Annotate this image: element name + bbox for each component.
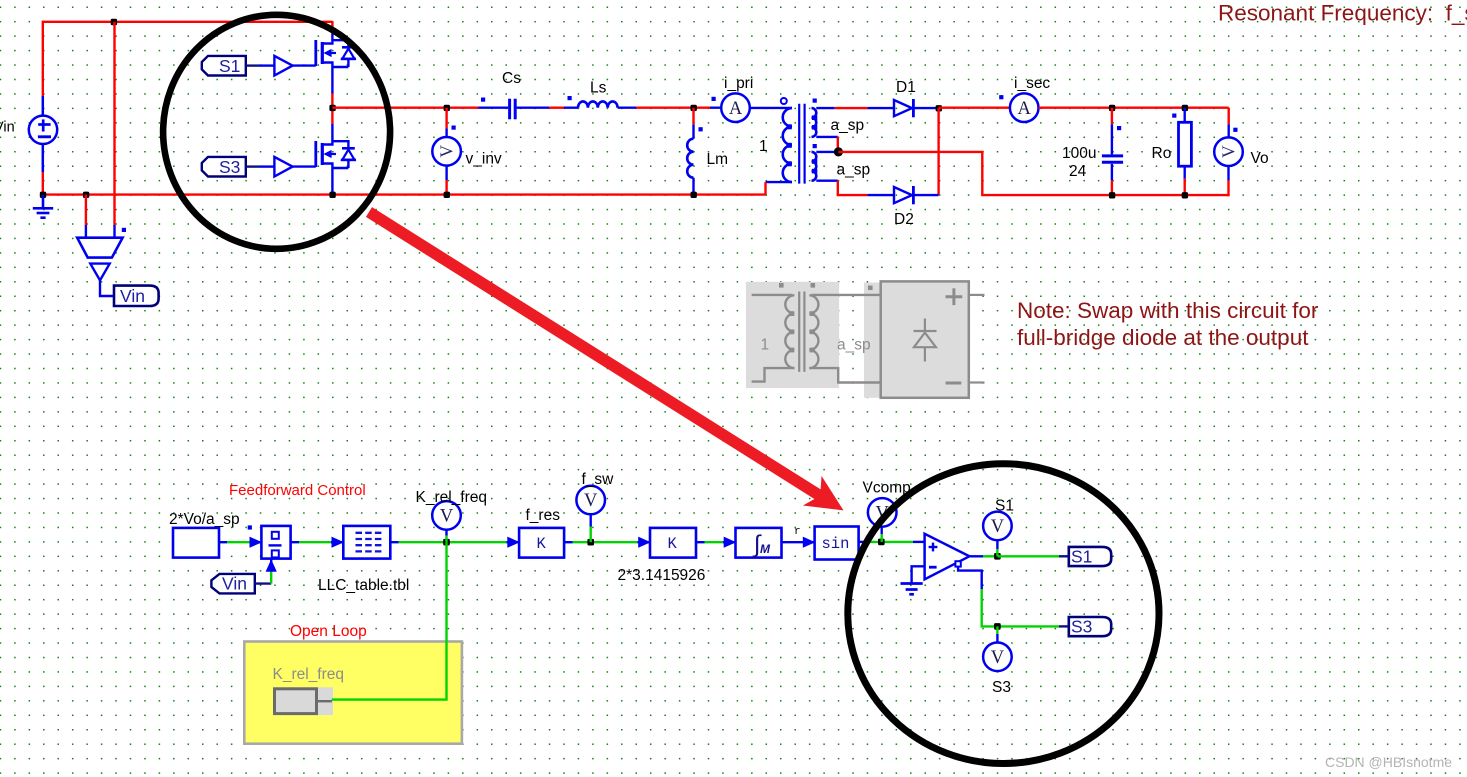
source VIN (dc source) [29, 116, 57, 144]
wire: Vin source top lead [42, 21, 44, 96]
svg-text:Resonant Frequency: f_s: Resonant Frequency: f_s [1218, 1, 1467, 26]
wire: buffer to gate [293, 165, 316, 167]
svg-text:Note: Swap with this circuit f: Note: Swap with this circuit for [1017, 298, 1319, 323]
open loop yellow panel [244, 642, 462, 744]
wire: S1 source to midpoint [331, 67, 333, 94]
svg-text:24: 24 [1069, 163, 1087, 180]
svg-text:full-bridge diode at the outpu: full-bridge diode at the output [1017, 325, 1309, 350]
wire: secondary lower to D2 [816, 179, 838, 181]
wire: integrator to sin [782, 541, 815, 543]
junction: S3 output node [994, 623, 1001, 630]
grayed swap circuit backdrop [746, 282, 839, 388]
wire: f_sw probe lead [590, 514, 592, 526]
svg-text:Cs: Cs [502, 70, 521, 87]
sensor S3 (voltmeter) [983, 643, 1012, 672]
capacitor Co (100u/24) [1102, 108, 1123, 195]
tag Vin (divider input, right-rounded) [211, 574, 254, 594]
wire: center tap to output return [838, 152, 1228, 195]
svg-text:a_sp: a_sp [837, 337, 871, 354]
svg-text:S1: S1 [219, 56, 240, 76]
svg-text:Vin: Vin [120, 286, 145, 306]
primary winding [783, 108, 792, 182]
red arrow [369, 212, 853, 525]
comparator U1 [925, 534, 970, 580]
wire: Ls to Lm node [636, 106, 710, 108]
wire: Cs to Ls [549, 106, 564, 108]
grayed diode bridge block [881, 281, 985, 397]
wire: bottom rail [43, 193, 766, 195]
sensor output triangle [90, 264, 109, 281]
svg-text:Ls: Ls [590, 80, 607, 97]
svg-text:M: M [760, 542, 771, 556]
junction: bottom rail / sensor tap [83, 192, 89, 198]
svg-text:Vin: Vin [0, 120, 15, 136]
junction: top rail / vin sense [111, 19, 117, 25]
wire: K2 to integrator [696, 541, 705, 543]
wire: output to S1 tag [997, 555, 1059, 557]
junction: Lm tap [691, 105, 697, 111]
transformer T1 [750, 98, 817, 195]
wire: top rail [43, 21, 333, 23]
junction: S1 output node [994, 553, 1001, 560]
junction: v_inv tap [444, 105, 450, 111]
svg-text:Vcomp: Vcomp [863, 480, 911, 497]
wire: S3 probe lead [996, 626, 998, 634]
wire: divider to table [291, 541, 299, 543]
inductor Ls [564, 96, 636, 108]
junction: ground node [40, 192, 46, 198]
wire: Vcomp probe lead [881, 527, 883, 534]
svg-text:K: K [668, 535, 678, 553]
wire: Lm bottom lead [692, 178, 694, 195]
buffer A2 (gate driver) [274, 157, 292, 177]
diode D1 [894, 99, 938, 117]
svg-text:S3: S3 [992, 679, 1011, 696]
wire: Vin source bottom lead [42, 144, 45, 173]
junction: S3 source / bottom rail [329, 192, 335, 198]
svg-text:i_sec: i_sec [1014, 75, 1050, 92]
wire: inverting input to ground [912, 566, 925, 583]
block U2 (divider) [261, 526, 290, 559]
wire: buffer to gate [293, 64, 316, 66]
primary bottom lead [766, 181, 793, 183]
svg-text:sin: sin [822, 535, 850, 553]
svg-text:v_inv: v_inv [466, 151, 502, 168]
svg-text:r: r [794, 526, 801, 538]
wire: comparator output [969, 555, 983, 557]
svg-text:K: K [537, 535, 547, 553]
wire: v_inv bottom lead [445, 166, 447, 181]
junction: Vcomp tap [878, 539, 885, 546]
sensor S1 (voltmeter) [983, 512, 1012, 541]
svg-text:1: 1 [759, 138, 768, 155]
wire: rail to S1 drain [331, 22, 333, 34]
junction: cap top [1109, 105, 1115, 111]
tag S3 (output, right-rounded) [1069, 617, 1111, 637]
wire: secondary upper to D1 [816, 107, 834, 109]
secondary winding upper [812, 108, 817, 137]
wire: center tap lower lead [816, 151, 838, 153]
grayed transformer [752, 283, 881, 383]
inductor Lm [687, 127, 703, 178]
junction: half-bridge midpoint [329, 105, 335, 111]
grayed constant block [273, 687, 333, 715]
ground [33, 195, 53, 218]
wire: i_sec to output node [1039, 106, 1229, 108]
junction: Ro top [1182, 105, 1188, 111]
block T (LLC_table lookup) [343, 526, 390, 559]
wire: Vo bottom lead [1227, 166, 1229, 181]
svg-text:K_rel_freq: K_rel_freq [416, 489, 488, 506]
junction: Ro bottom [1182, 192, 1188, 198]
tag S1 (output, right-rounded) [1069, 547, 1111, 567]
svg-text:S3: S3 [219, 157, 240, 177]
junction: f_sw tap [587, 539, 594, 546]
wire: open-loop green drop [332, 542, 447, 699]
capacitor Cs [479, 98, 550, 120]
wire: sin to comparator [859, 541, 866, 543]
core [798, 104, 800, 184]
svg-text:1: 1 [761, 337, 770, 354]
block B1 (constant 2*Vo/a_sp) [173, 528, 219, 558]
block K2 (2*pi gain) [650, 528, 696, 558]
svg-text:a_sp: a_sp [831, 117, 865, 134]
wire: D1/D2 cathode tie [937, 108, 939, 195]
svg-text:S1: S1 [1071, 547, 1092, 567]
svg-text:Lm: Lm [707, 151, 729, 168]
wire: v_inv top lead [445, 108, 447, 129]
svg-text:f_res: f_res [526, 507, 561, 524]
sensor f_sw (voltmeter) [576, 486, 605, 515]
diode D2 [894, 186, 939, 204]
block K1 (f_res gain) [519, 528, 564, 558]
wire: sensor output to Vin tag [100, 280, 114, 296]
svg-text:a_sp: a_sp [837, 162, 871, 179]
sensor Vo (voltage probe) [1214, 137, 1243, 166]
wire: S3 source to bottom rail [331, 168, 333, 195]
svg-text:CSDN @HBIsnotme: CSDN @HBIsnotme [1325, 754, 1452, 770]
buffer A1 (gate driver) [274, 56, 292, 76]
svg-text:Vo: Vo [1251, 150, 1269, 167]
tag S3 (gate signal, left-rounded) [202, 157, 246, 177]
tag S1 (gate signal, left-rounded) [202, 56, 246, 76]
wire: Vin tag to divider bottom input [255, 582, 271, 584]
sensor K_rel_freq (voltmeter) [432, 501, 461, 530]
wire: D1 node to i_sec [939, 106, 1010, 108]
wire: K_rel_freq probe lead [445, 530, 447, 536]
svg-text:2*3.1415926: 2*3.1415926 [618, 567, 706, 584]
wire: Vo probe branch [1227, 108, 1229, 125]
svg-text:Feedforward Control: Feedforward Control [229, 482, 366, 499]
junction: K_rel_freq tap [443, 539, 450, 546]
highlight circle (half-bridge) [163, 15, 390, 249]
junction: Lm / bottom rail [691, 192, 697, 198]
sensor Vcomp (voltmeter) [868, 498, 897, 527]
wire: Lm top lead [692, 108, 694, 125]
sensor v_inv (voltage probe) [432, 137, 461, 166]
svg-text:D1: D1 [896, 79, 916, 96]
ground (comparator reference) [901, 584, 923, 595]
junction: D1 cathode node [936, 105, 942, 111]
junction: cap bottom [1109, 192, 1115, 198]
ammeter i_sec [1010, 93, 1039, 122]
wire: complementary output elbow [958, 567, 982, 590]
tag Vin (label, right-rounded) [114, 286, 159, 306]
wire: S1 tag to buffer [246, 64, 259, 66]
wire: i_pri to primary [750, 107, 792, 109]
wire: S1 probe lead [996, 540, 998, 549]
ammeter i_pri [721, 93, 750, 122]
block SIN [815, 527, 859, 560]
resistor Ro [1172, 108, 1191, 195]
primary polarity circle [781, 98, 787, 104]
svg-text:i_pri: i_pri [724, 75, 753, 92]
wire: mid rail to Cs [332, 106, 478, 108]
sensor VS1 (Vin voltage sensor trapezoid) [77, 238, 122, 258]
block INT (integrator) [736, 528, 782, 560]
highlight circle (comparator outputs) [848, 464, 1159, 764]
junction: center tap (round) [834, 147, 843, 156]
svg-text:2*Vo/a_sp: 2*Vo/a_sp [169, 511, 240, 528]
svg-text:S1: S1 [995, 498, 1014, 515]
wire: center tap upper lead [816, 136, 838, 138]
svg-text:S3: S3 [1071, 617, 1092, 637]
secondary winding lower [812, 152, 817, 181]
wire: sensor left lead [85, 195, 87, 225]
svg-text:f_sw: f_sw [582, 471, 615, 488]
svg-text:Open Loop: Open Loop [290, 623, 367, 640]
wire: table to f_res K [390, 541, 398, 543]
mosfet S3 (bottom switch with body diode) [316, 135, 356, 169]
svg-text:D2: D2 [894, 211, 914, 228]
wire: S3 tag to buffer [246, 165, 259, 167]
svg-text:Ro: Ro [1152, 145, 1172, 162]
wire: K1 to K2 [564, 541, 572, 543]
svg-text:K_rel_freq: K_rel_freq [273, 666, 345, 683]
wire: vin sense drop [113, 22, 115, 225]
svg-text:Vin: Vin [222, 574, 247, 594]
svg-text:100u: 100u [1062, 145, 1096, 162]
mosfet S1 (top switch with body diode) [316, 34, 356, 68]
junction: v_inv / bottom rail [444, 192, 450, 198]
svg-text:LLC_table.tbl: LLC_table.tbl [318, 577, 409, 594]
wire: B1 to divider [219, 541, 227, 543]
